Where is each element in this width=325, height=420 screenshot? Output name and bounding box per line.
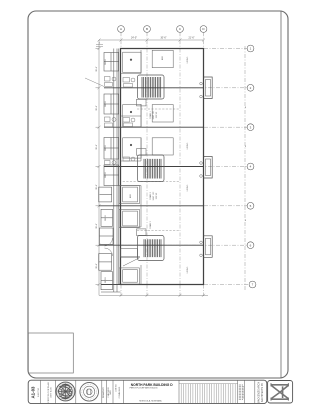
svg-text:30'-6": 30'-6" [160, 37, 166, 40]
svg-text:STAIR 1: STAIR 1 [149, 110, 152, 118]
svg-text:PATIO: PATIO [104, 277, 107, 283]
svg-text:39'-4": 39'-4" [96, 184, 98, 190]
svg-text:COMM 0421: COMM 0421 [119, 386, 121, 399]
svg-text:PATIO: PATIO [104, 172, 107, 178]
svg-text:UNIT 103: UNIT 103 [153, 191, 155, 200]
svg-text:202 SF: 202 SF [156, 192, 158, 199]
svg-text:UNIT 101: UNIT 101 [153, 110, 155, 119]
svg-text:LIVING: LIVING [187, 266, 189, 273]
svg-text:39'-4": 39'-4" [96, 66, 98, 72]
svg-text:NORTH PARK BUILDING D: NORTH PARK BUILDING D [131, 383, 173, 387]
svg-text:MISSOULA, MONTANA: MISSOULA, MONTANA [139, 400, 162, 403]
svg-text:JOB NO: JOB NO [116, 384, 118, 392]
svg-text:ARCHITECTS PC: ARCHITECTS PC [261, 383, 264, 403]
svg-text:24'-0": 24'-0" [131, 37, 137, 40]
svg-text:BED: BED [130, 193, 132, 198]
svg-text:A1-03: A1-03 [31, 386, 36, 399]
svg-text:B: B [146, 27, 148, 31]
svg-text:LIVING: LIVING [187, 184, 189, 191]
svg-text:PATIO: PATIO [104, 101, 107, 107]
svg-text:WEST BLDG: WEST BLDG [51, 387, 53, 398]
svg-text:FIRST FLOOR WEST BLDG: FIRST FLOOR WEST BLDG [130, 388, 158, 390]
svg-text:LIVING: LIVING [187, 142, 189, 149]
svg-text:21'-6": 21'-6" [188, 37, 194, 40]
svg-text:BED: BED [162, 55, 164, 60]
svg-text:PATIO: PATIO [104, 145, 107, 151]
svg-text:39'-4": 39'-4" [96, 263, 98, 269]
svg-text:MACKENZIE ARCH: MACKENZIE ARCH [258, 382, 261, 404]
svg-text:39'-4": 39'-4" [96, 144, 98, 150]
svg-text:FIRST FLOOR PLAN: FIRST FLOOR PLAN [47, 382, 50, 402]
svg-text:STAIR 2: STAIR 2 [149, 191, 152, 199]
svg-text:DATE: DATE [109, 389, 112, 394]
svg-text:202 SF: 202 SF [156, 111, 158, 118]
svg-text:DRAWN BY: DRAWN BY [102, 386, 105, 398]
svg-text:STAIR 3: STAIR 3 [149, 220, 152, 228]
svg-text:39'-4": 39'-4" [96, 105, 98, 111]
svg-text:39'-4": 39'-4" [96, 223, 98, 229]
svg-text:PATIO: PATIO [104, 215, 107, 221]
svg-text:PATIO: PATIO [104, 59, 107, 65]
svg-text:A: A [120, 27, 122, 31]
svg-text:LIVING: LIVING [187, 56, 189, 63]
svg-text:SHEET NO: SHEET NO [38, 387, 40, 397]
